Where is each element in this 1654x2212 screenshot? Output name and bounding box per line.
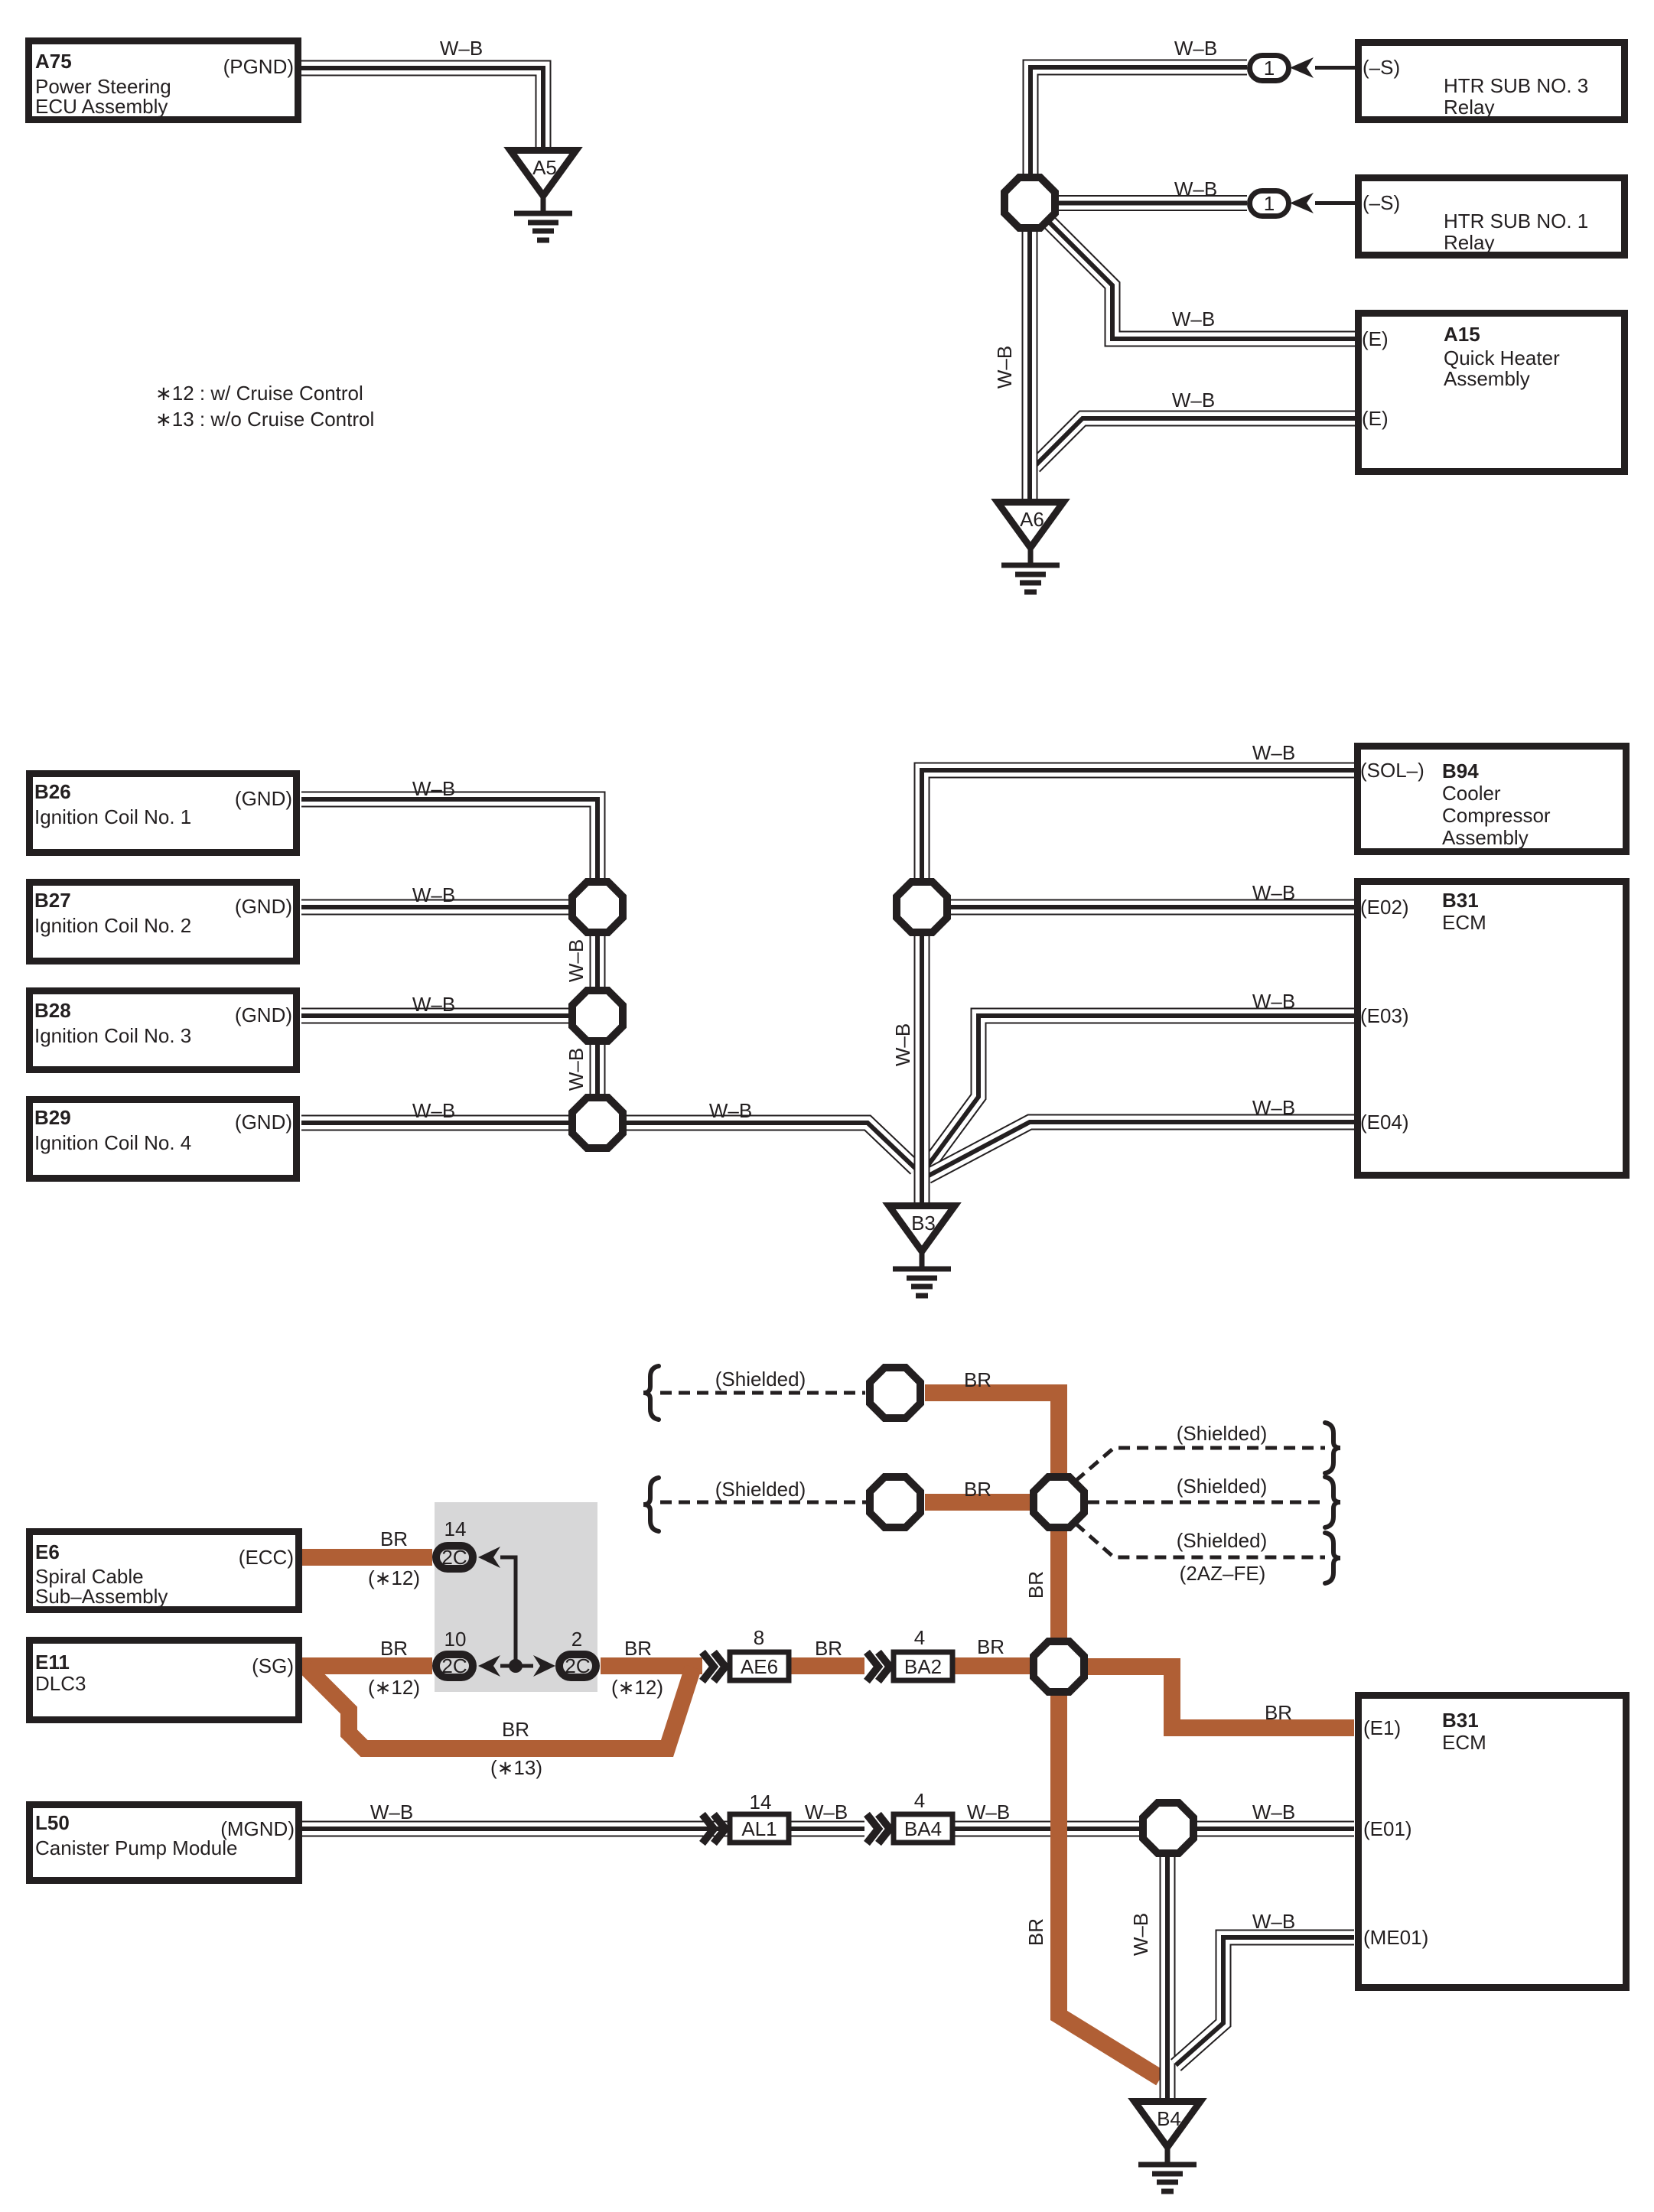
arrow into 2C pin 14	[478, 1547, 500, 1568]
wire W-B from HTR SUB NO.3 relay connector to junction	[1030, 67, 1247, 174]
svg-text:Relay: Relay	[1444, 96, 1494, 119]
wire W-B from ECM (E03) to B3 merge	[925, 1016, 1354, 1169]
wire BR from AE6 to connector BA2	[789, 1657, 864, 1674]
female connector 1 (HTR SUB NO.1 relay)	[1250, 191, 1289, 216]
splice chevron before BA4	[867, 1814, 890, 1843]
svg-text:(Shielded): (Shielded)	[715, 1478, 806, 1501]
splice code BA4	[894, 1814, 952, 1843]
svg-text:Ignition Coil No. 3: Ignition Coil No. 3	[34, 1024, 191, 1047]
junction octagon (ignition coil chain 2)	[572, 991, 623, 1041]
ground point A5	[510, 151, 576, 241]
junction octagon (ECM E02 / B94 node)	[897, 882, 947, 932]
svg-text:(Shielded): (Shielded)	[1177, 1422, 1268, 1445]
svg-text:B27: B27	[34, 889, 71, 912]
ground point A6	[998, 503, 1063, 593]
svg-text:A5: A5	[532, 156, 557, 179]
svg-text:W–B: W–B	[805, 1801, 848, 1823]
svg-text:Quick Heater: Quick Heater	[1444, 346, 1560, 369]
box E6 Spiral Cable Sub-Assembly	[30, 1532, 299, 1610]
svg-text:HTR SUB NO. 1: HTR SUB NO. 1	[1444, 210, 1588, 233]
junction octagon J7 (W-B node)	[1143, 1803, 1193, 1853]
svg-text:W–B: W–B	[412, 883, 455, 906]
wire W-B from junction chain to B3 merge	[627, 1123, 916, 1169]
svg-text:A75: A75	[35, 50, 72, 73]
wire W-B from A15 (E) pin 1 to junction	[1050, 223, 1355, 339]
svg-text:4: 4	[914, 1626, 925, 1649]
svg-text:14: 14	[444, 1517, 467, 1540]
svg-text:Assembly: Assembly	[1444, 367, 1530, 390]
wire W-B from A15 (E) pin 2 to ground drop	[1034, 418, 1355, 467]
svg-text:BR: BR	[380, 1637, 408, 1660]
brace continuation mark (shielded row 1 left)	[643, 1366, 659, 1420]
box HTR SUB NO.1 Relay	[1359, 178, 1625, 255]
svg-text:W–B: W–B	[412, 993, 455, 1016]
svg-text:(E): (E)	[1362, 327, 1389, 350]
svg-text:E11: E11	[35, 1651, 70, 1674]
arrow into 2C pin 2	[533, 1655, 555, 1677]
svg-text:W–B: W–B	[565, 1048, 588, 1091]
svg-text:(∗12): (∗12)	[368, 1566, 420, 1589]
wire W-B from AL1 to connector BA4	[789, 1828, 864, 1830]
svg-text:W–B: W–B	[565, 939, 588, 982]
svg-text:∗13 : w/o Cruise Control: ∗13 : w/o Cruise Control	[155, 408, 374, 431]
svg-text:(SG): (SG)	[252, 1654, 294, 1677]
svg-text:W–B: W–B	[412, 1099, 455, 1122]
svg-text:Assembly: Assembly	[1442, 826, 1529, 849]
box B26 Ignition Coil No.1	[30, 774, 297, 853]
brace continuation mark (shielded lower right)	[1325, 1533, 1340, 1583]
svg-text:(MGND): (MGND)	[220, 1817, 295, 1840]
dashed shielded wire to junction (row 2 left)	[660, 1501, 867, 1504]
svg-text:W–B: W–B	[1252, 881, 1295, 904]
svg-text:W–B: W–B	[440, 37, 483, 60]
brace continuation mark (shielded upper right)	[1325, 1423, 1340, 1473]
connector 2C pin 2	[559, 1654, 596, 1677]
splice chevron before AL1	[702, 1814, 725, 1843]
svg-text:BR: BR	[502, 1718, 529, 1741]
svg-text:B3: B3	[911, 1212, 936, 1234]
svg-text:W–B: W–B	[412, 777, 455, 800]
wire BR from BA2 to junction J6	[952, 1657, 1030, 1674]
svg-text:BA2: BA2	[904, 1655, 942, 1678]
wire W-B from B29 (GND) to junction	[301, 1122, 568, 1124]
svg-text:Ignition Coil No. 4: Ignition Coil No. 4	[34, 1131, 191, 1154]
svg-text:2C: 2C	[441, 1546, 467, 1569]
box A75 Power Steering ECU Assembly	[29, 41, 298, 120]
wire BR from E11 (SG) to connector 2C pin 10	[302, 1657, 432, 1674]
arrow into connector 1 (HTR SUB NO.3)	[1290, 57, 1314, 78]
svg-text:(∗12): (∗12)	[611, 1676, 663, 1699]
svg-text:W–B: W–B	[709, 1099, 752, 1122]
svg-text:(ECC): (ECC)	[239, 1546, 294, 1569]
svg-text:ECU Assembly: ECU Assembly	[35, 95, 168, 118]
wire BR from J6 to ECM (E1)	[1088, 1667, 1354, 1728]
ground point B4	[1135, 2102, 1200, 2192]
svg-text:BA4: BA4	[904, 1817, 942, 1840]
wire W-B from junction to ECM (E02)	[951, 906, 1354, 908]
junction dot	[509, 1659, 523, 1673]
svg-text:W–B: W–B	[1252, 1910, 1295, 1933]
svg-text:BR: BR	[380, 1527, 408, 1550]
connector 2C pin 14	[436, 1546, 473, 1569]
svg-text:HTR SUB NO. 3: HTR SUB NO. 3	[1444, 74, 1588, 97]
wire BR (*13) bypass around 2C connectors	[306, 1667, 693, 1748]
ground point B3	[889, 1206, 955, 1296]
svg-text:(E1): (E1)	[1363, 1716, 1401, 1739]
wire W-B junction down to ground B3	[921, 936, 923, 1202]
svg-text:(2AZ–FE): (2AZ–FE)	[1180, 1562, 1266, 1585]
arrow into connector 1 (HTR SUB NO.1)	[1290, 193, 1314, 213]
svg-text:Ignition Coil No. 1: Ignition Coil No. 1	[34, 805, 191, 828]
svg-text:A15: A15	[1444, 323, 1480, 346]
box B27 Ignition Coil No.2	[30, 883, 297, 961]
dashed shielded wire from J5 upper right	[1076, 1448, 1325, 1481]
dashed shielded wire to junction (row 1 left)	[660, 1391, 865, 1395]
link wire from pin14 arrow to junction dot	[500, 1557, 516, 1666]
svg-text:14: 14	[750, 1791, 772, 1814]
svg-text:B31: B31	[1442, 1709, 1479, 1732]
junction octagon (shielded row 2)	[870, 1477, 920, 1527]
box B31 ECM (upper)	[1358, 882, 1626, 1176]
wire BR from E6 (ECC) to connector 2C pin 14	[302, 1549, 432, 1566]
dashed shielded wire from J5 middle right	[1088, 1501, 1325, 1504]
svg-text:ECM: ECM	[1442, 911, 1486, 934]
svg-text:B94: B94	[1442, 760, 1479, 782]
box B29 Ignition Coil No.4	[30, 1100, 297, 1179]
svg-text:BR: BR	[1024, 1571, 1047, 1599]
wire stub to HTR SUB NO.1 relay	[1315, 201, 1355, 205]
svg-text:BR: BR	[815, 1637, 842, 1660]
svg-text:(ME01): (ME01)	[1363, 1926, 1428, 1949]
wire W-B from A75 (PGND) to ground A5	[301, 68, 543, 147]
svg-text:BR: BR	[964, 1478, 991, 1501]
svg-text:DLC3: DLC3	[35, 1672, 86, 1695]
wire BR from shielded junction row2 to J5	[925, 1494, 1030, 1511]
svg-text:W–B: W–B	[1252, 990, 1295, 1013]
wire W-B from junction down to ground B4	[1167, 1857, 1168, 2098]
svg-text:4: 4	[914, 1789, 925, 1812]
svg-text:(GND): (GND)	[235, 1004, 292, 1026]
splice chevron before BA2	[867, 1652, 890, 1681]
svg-text:W–B: W–B	[993, 346, 1016, 389]
junction octagon J6 (BR node)	[1034, 1641, 1084, 1692]
wire W-B from B27 (GND) to junction	[301, 906, 568, 908]
box B31 ECM (lower)	[1359, 1696, 1626, 1988]
svg-text:BR: BR	[1024, 1918, 1047, 1946]
box L50 Canister Pump Module	[30, 1805, 299, 1881]
splice chevron before AE6	[702, 1652, 725, 1681]
box E11 DLC3	[30, 1641, 299, 1720]
wire W-B from BA4 to junction	[952, 1828, 1139, 1830]
box B28 Ignition Coil No.3	[30, 991, 297, 1070]
svg-text:BR: BR	[977, 1635, 1004, 1658]
svg-text:A6: A6	[1020, 508, 1044, 531]
svg-text:W–B: W–B	[967, 1801, 1010, 1823]
junction octagon (shielded row 1)	[870, 1368, 920, 1418]
brace continuation mark (shielded row 2 left)	[643, 1478, 659, 1531]
svg-text:2: 2	[571, 1628, 582, 1651]
svg-text:Compressor: Compressor	[1442, 804, 1551, 827]
wire W-B from HTR SUB NO.1 relay connector to junction	[1059, 203, 1247, 204]
svg-text:ECM: ECM	[1442, 1731, 1486, 1754]
svg-text:(PGND): (PGND)	[223, 55, 294, 78]
splice code AL1	[730, 1814, 789, 1843]
shaded option panel (2C connector group)	[435, 1502, 597, 1692]
svg-text:AL1: AL1	[741, 1817, 777, 1840]
svg-text:AE6: AE6	[741, 1655, 778, 1678]
svg-text:B28: B28	[34, 999, 71, 1022]
arrow into 2C pin 10	[478, 1655, 500, 1677]
svg-text:W–B: W–B	[370, 1801, 413, 1823]
svg-text:(SOL–): (SOL–)	[1360, 759, 1424, 782]
brace continuation mark (shielded middle right)	[1325, 1477, 1340, 1527]
wire W-B from ECM (ME01) to ground B4 drop	[1176, 1937, 1354, 2065]
svg-text:W–B: W–B	[1252, 741, 1295, 764]
wire W-B from L50 (MGND) to connector AL1	[302, 1828, 730, 1830]
svg-text:10: 10	[444, 1628, 467, 1651]
splice code AE6	[730, 1652, 789, 1680]
svg-text:2C: 2C	[565, 1654, 590, 1677]
junction octagon (ignition coil chain 1)	[572, 882, 623, 932]
svg-text:(–S): (–S)	[1363, 56, 1400, 79]
svg-text:BR: BR	[964, 1368, 991, 1391]
connector 2C pin 10	[436, 1654, 473, 1677]
svg-text:B4: B4	[1157, 2107, 1181, 2130]
svg-text:∗12 : w/ Cruise Control: ∗12 : w/ Cruise Control	[155, 382, 363, 405]
svg-text:B31: B31	[1442, 889, 1479, 912]
svg-text:(Shielded): (Shielded)	[715, 1368, 806, 1391]
female connector 1 (HTR SUB NO.3 relay)	[1250, 56, 1289, 81]
svg-text:(∗12): (∗12)	[368, 1676, 420, 1699]
svg-text:(GND): (GND)	[235, 895, 292, 918]
svg-text:(E03): (E03)	[1360, 1004, 1409, 1027]
link wires at junction dot row	[500, 1664, 533, 1668]
wire W-B from ECM (E04) to B3 merge	[927, 1122, 1354, 1176]
svg-text:(GND): (GND)	[235, 787, 292, 810]
wire BR from shielded junction row1 down through J5 J6 to ground B4	[925, 1393, 1161, 2078]
svg-text:(–S): (–S)	[1363, 191, 1400, 214]
wire W-B from B26 (GND) to junction chain	[301, 799, 597, 878]
svg-text:L50: L50	[35, 1811, 70, 1834]
wire BR from 2C pin 2 to connector AE6	[601, 1657, 702, 1674]
svg-text:W–B: W–B	[1129, 1913, 1152, 1956]
wire W-B from B28 (GND) to junction	[301, 1015, 568, 1017]
svg-text:2C: 2C	[441, 1654, 467, 1677]
wire W-B junction to ground A6	[1029, 232, 1030, 499]
svg-text:W–B: W–B	[1252, 1801, 1295, 1823]
wire stub to HTR SUB NO.3 relay	[1315, 66, 1355, 70]
svg-text:(E): (E)	[1362, 407, 1389, 430]
wire W-B from B94 (SOL-) to junction	[922, 770, 1354, 878]
svg-text:Cooler: Cooler	[1442, 782, 1501, 805]
junction octagon (ignition coil chain 3)	[572, 1098, 623, 1148]
svg-text:Relay: Relay	[1444, 231, 1494, 254]
svg-text:(Shielded): (Shielded)	[1177, 1529, 1268, 1552]
svg-text:8: 8	[754, 1626, 764, 1649]
box B94 Cooler Compressor Assembly	[1358, 747, 1626, 852]
svg-text:(E01): (E01)	[1363, 1817, 1412, 1840]
svg-text:W–B: W–B	[1172, 307, 1215, 330]
svg-text:W–B: W–B	[891, 1023, 914, 1066]
svg-text:Sub–Assembly: Sub–Assembly	[35, 1585, 168, 1608]
svg-text:(GND): (GND)	[235, 1111, 292, 1134]
box A15 Quick Heater Assembly	[1359, 314, 1625, 472]
svg-text:B26: B26	[34, 780, 71, 803]
dashed shielded wire from J5 lower right	[1076, 1524, 1325, 1557]
splice code BA2	[894, 1652, 952, 1680]
svg-text:W–B: W–B	[1172, 389, 1215, 411]
box HTR SUB NO.3 Relay	[1359, 43, 1625, 120]
svg-text:W–B: W–B	[1252, 1096, 1295, 1119]
svg-text:(∗13): (∗13)	[490, 1756, 542, 1779]
svg-text:BR: BR	[624, 1637, 652, 1660]
svg-text:E6: E6	[35, 1540, 60, 1563]
svg-text:BR: BR	[1265, 1701, 1292, 1724]
wire W-B from junction to ECM (E01)	[1197, 1828, 1354, 1830]
svg-text:W–B: W–B	[1174, 37, 1217, 60]
svg-text:(E04): (E04)	[1360, 1111, 1409, 1134]
svg-text:B29: B29	[34, 1106, 71, 1129]
junction octagon A (top, HTR relays / quick heater grounds)	[1004, 177, 1055, 228]
svg-text:1: 1	[1264, 192, 1275, 215]
svg-text:W–B: W–B	[1174, 177, 1217, 200]
svg-text:1: 1	[1264, 57, 1275, 80]
junction octagon J5 (shielded bundle)	[1034, 1477, 1084, 1527]
wire W-B junction chain segment 1	[597, 936, 598, 987]
svg-text:(E02): (E02)	[1360, 896, 1409, 919]
wire W-B junction chain segment 2	[597, 1045, 598, 1095]
svg-text:Canister Pump Module: Canister Pump Module	[35, 1836, 237, 1859]
svg-text:(Shielded): (Shielded)	[1177, 1475, 1268, 1498]
svg-text:Ignition Coil No. 2: Ignition Coil No. 2	[34, 914, 191, 937]
